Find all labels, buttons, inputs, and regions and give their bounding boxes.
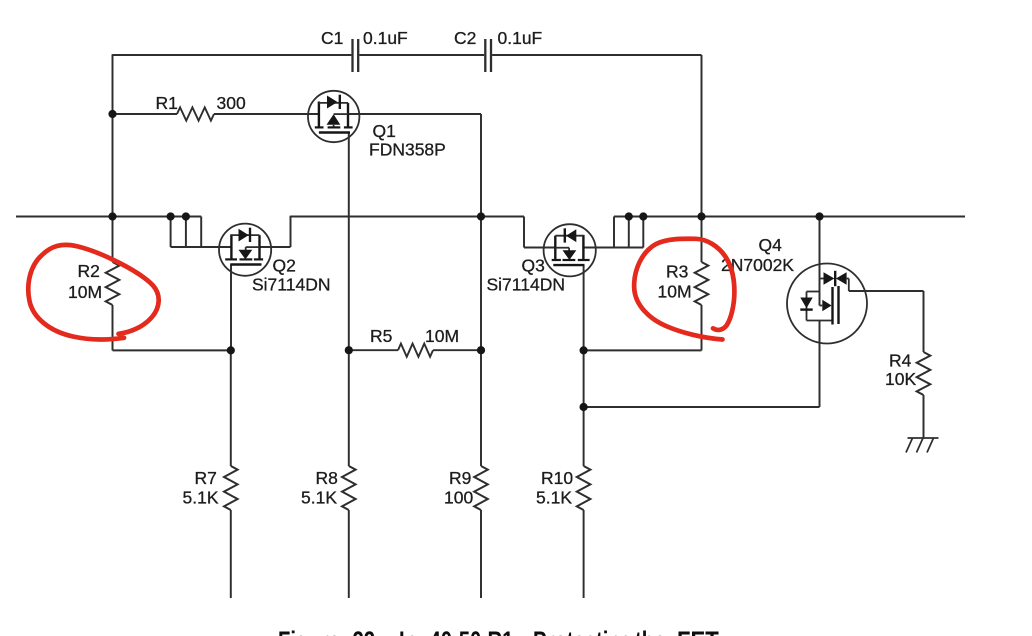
svg-text:C2: C2 — [454, 28, 476, 48]
svg-text:R9: R9 — [449, 468, 471, 488]
svg-text:R8: R8 — [316, 468, 338, 488]
svg-text:40-50: 40-50 — [430, 626, 482, 636]
svg-text:FET: FET — [677, 627, 719, 636]
svg-text:R3: R3 — [666, 261, 688, 281]
svg-text:Si7114DN: Si7114DN — [252, 274, 330, 294]
svg-text:Protecting: Protecting — [533, 626, 633, 636]
svg-text:100: 100 — [444, 487, 473, 507]
svg-text:FDN358P: FDN358P — [369, 139, 446, 159]
svg-text:Si7114DN: Si7114DN — [487, 274, 565, 294]
svg-text:R7: R7 — [195, 468, 217, 488]
svg-text:R4: R4 — [889, 350, 912, 370]
svg-text:10M: 10M — [425, 326, 459, 346]
svg-text:10K: 10K — [885, 369, 916, 389]
svg-text:0.1uF: 0.1uF — [363, 28, 408, 48]
svg-text:22.: 22. — [353, 626, 381, 636]
svg-text:0.1uF: 0.1uF — [498, 28, 543, 48]
svg-text:10M: 10M — [68, 282, 102, 302]
svg-text:Q1: Q1 — [373, 121, 396, 141]
svg-text:R5: R5 — [370, 326, 392, 346]
svg-text:Ip: Ip — [399, 626, 417, 636]
svg-text:R1: R1 — [156, 93, 178, 113]
svg-text:10M: 10M — [658, 281, 692, 301]
svg-text:R1: R1 — [488, 626, 514, 636]
svg-text:Q2: Q2 — [273, 255, 296, 275]
svg-text:the: the — [635, 626, 665, 636]
svg-text:Figure: Figure — [278, 626, 340, 636]
svg-text:5.1K: 5.1K — [301, 487, 337, 507]
svg-text:R10: R10 — [541, 468, 573, 488]
svg-text:Q4: Q4 — [759, 235, 783, 255]
svg-text:300: 300 — [217, 93, 246, 113]
svg-text:R2: R2 — [78, 261, 100, 281]
svg-text:Q3: Q3 — [522, 255, 545, 275]
svg-text:C1: C1 — [321, 28, 343, 48]
svg-text:5.1K: 5.1K — [183, 487, 219, 507]
svg-text:5.1K: 5.1K — [536, 487, 572, 507]
